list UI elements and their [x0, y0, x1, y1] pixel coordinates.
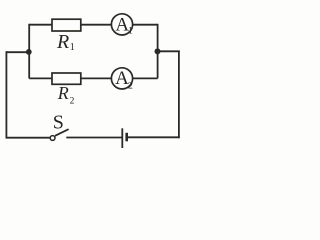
svg-text:S: S: [53, 112, 64, 134]
svg-text:R: R: [57, 83, 69, 103]
wire top branch middle segment: [81, 24, 112, 26]
svg-text:2: 2: [70, 97, 75, 107]
node left junction: [26, 49, 32, 55]
resistor R1: [52, 19, 81, 31]
wire right outer vertical: [178, 51, 180, 139]
wire right stub: [158, 50, 180, 52]
wire bottom branch right segment: [133, 77, 158, 79]
wire bottom right segment: [128, 136, 180, 138]
svg-text:A: A: [115, 68, 129, 89]
battery short plate: [125, 133, 128, 142]
wire top branch left segment: [29, 24, 52, 26]
switch S blade: [55, 129, 69, 136]
ammeter A2: [111, 68, 132, 89]
switch S pivot circle: [50, 136, 55, 141]
node right junction: [155, 48, 161, 54]
svg-text:1: 1: [128, 26, 133, 36]
wire bottom middle segment: [66, 137, 121, 139]
svg-text:R: R: [56, 31, 69, 53]
battery long plate: [121, 128, 123, 148]
wire left bus vertical: [28, 24, 30, 79]
wire bottom branch left segment: [29, 77, 52, 79]
svg-text:2: 2: [128, 81, 133, 92]
resistor R2: [52, 73, 81, 84]
wire left stub: [6, 51, 29, 53]
ammeter A1: [111, 14, 132, 35]
wire bottom branch middle segment: [81, 77, 112, 79]
wire left outer vertical: [5, 51, 7, 138]
wire bottom left segment: [6, 137, 51, 139]
wire right bus vertical: [157, 24, 159, 79]
wire top branch right segment: [133, 24, 158, 26]
svg-text:1: 1: [70, 42, 75, 53]
